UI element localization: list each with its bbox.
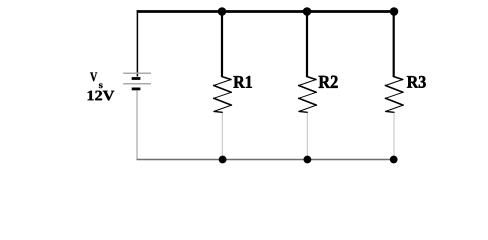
label Vs subscript s <box>99 83 103 88</box>
junction dot top 1 <box>218 7 227 16</box>
battery Vs: short thick plate 1 <box>132 77 141 80</box>
junction dot top 2 <box>303 7 312 16</box>
junction dot top 3 <box>390 7 399 16</box>
label R2 <box>319 76 338 88</box>
battery Vs: long plate 2 <box>123 83 151 85</box>
junction dot bottom 2 <box>304 156 312 164</box>
wire: branch 3 top <box>393 10 395 77</box>
junction dot bottom 3 <box>390 156 398 164</box>
label R3 <box>407 76 426 88</box>
junction dot bottom 1 <box>219 156 227 164</box>
wire: branch 2 top <box>306 10 308 77</box>
resistor R3 zigzag <box>385 77 403 113</box>
resistor R1 zigzag <box>214 77 232 113</box>
wire: battery negative down to bottom bus (gray) <box>136 90 138 159</box>
label R1 <box>233 76 251 88</box>
label Vs <box>90 72 97 81</box>
wire: left vertical from top bus to battery <box>136 10 138 76</box>
resistor R2 zigzag <box>299 77 317 113</box>
top bus wire (node +) <box>137 10 394 13</box>
wire: branch 1 top <box>221 10 223 77</box>
wire: branch 2 bottom stub (light gray) <box>306 113 308 160</box>
wire: branch 1 bottom stub (light gray) <box>221 113 223 160</box>
battery Vs: long plate 1 <box>123 72 151 74</box>
label 12V <box>88 91 115 101</box>
battery Vs: short thick plate 2 <box>132 88 141 91</box>
bottom bus wire (node -) <box>137 159 394 161</box>
wire: branch 3 bottom stub (light gray) <box>393 113 395 160</box>
